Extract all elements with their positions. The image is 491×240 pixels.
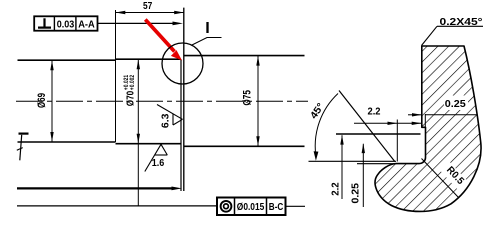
svg-text:1.6: 1.6	[152, 158, 165, 169]
svg-text:0.03: 0.03	[57, 19, 75, 30]
svg-text:Ø75: Ø75	[241, 90, 253, 106]
svg-text:+0.002: +0.002	[130, 74, 136, 90]
svg-text:Ø69: Ø69	[36, 93, 48, 108]
svg-text:I: I	[205, 20, 210, 37]
svg-text:Ø70: Ø70	[124, 91, 136, 107]
svg-text:B-C: B-C	[269, 202, 284, 213]
svg-text:6.3: 6.3	[160, 113, 171, 128]
svg-text:A-A: A-A	[78, 19, 95, 30]
svg-text:57: 57	[143, 1, 153, 12]
svg-text:0.25: 0.25	[445, 99, 466, 110]
svg-text:0.25: 0.25	[351, 183, 362, 204]
svg-text:2.2: 2.2	[368, 107, 381, 118]
svg-text:2.2: 2.2	[330, 182, 341, 196]
svg-text:+0.021: +0.021	[124, 74, 130, 90]
svg-text:45°: 45°	[309, 101, 327, 121]
svg-text:Ø0.015: Ø0.015	[237, 202, 265, 213]
